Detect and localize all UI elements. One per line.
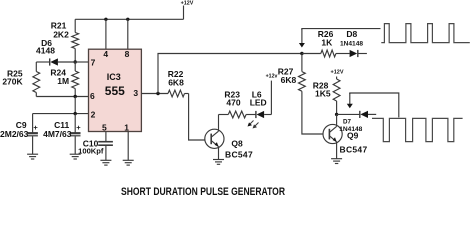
capacitor C9 2M2/63	[27, 114, 38, 155]
ground under pin 1	[123, 160, 134, 165]
node: rail junction at R27	[300, 52, 303, 55]
resistor R21 2K2	[72, 19, 79, 62]
svg-text:D7: D7	[343, 118, 351, 125]
node: pin8 to rail	[126, 18, 129, 21]
capacitor C10 100Kpf	[98, 132, 113, 161]
wire: R25/R24 to pin 6	[36, 96, 88, 98]
transistor Q8 BC547	[205, 115, 224, 160]
svg-text:IC3: IC3	[107, 72, 121, 82]
svg-text:4148: 4148	[36, 45, 55, 55]
diode D8 1N4148	[350, 50, 367, 57]
node: Q9 collector junction	[335, 113, 338, 116]
svg-text:1M: 1M	[57, 76, 69, 86]
svg-text:BC547: BC547	[340, 145, 368, 155]
node: pin4 to rail	[104, 18, 107, 21]
svg-text:555: 555	[105, 84, 125, 98]
svg-text:4: 4	[103, 49, 108, 59]
svg-text:470: 470	[226, 98, 240, 108]
svg-text:2: 2	[91, 109, 96, 119]
waveform pointer (top)	[299, 29, 381, 48]
capacitor C11 4M7/63	[70, 114, 81, 155]
svg-text:8: 8	[125, 49, 130, 59]
svg-text:6K8: 6K8	[168, 77, 184, 87]
ground under C11	[70, 154, 81, 159]
svg-text:+12v: +12v	[266, 73, 278, 79]
transistor Q9 BC547	[323, 114, 342, 158]
node: R21/R24/D6/pin7 junction	[74, 60, 77, 63]
node: output junction	[156, 92, 159, 95]
svg-text:1K: 1K	[321, 38, 333, 48]
ground under Q9	[331, 159, 342, 164]
diode D7 1N4148	[337, 111, 377, 118]
wire: output riser to top rail	[158, 54, 302, 94]
svg-text:LED: LED	[250, 98, 267, 108]
resistor R22 6K8	[168, 90, 189, 97]
ground under C10	[100, 160, 111, 165]
svg-text:BC547: BC547	[225, 150, 253, 160]
svg-text:+12V: +12V	[181, 0, 194, 6]
diode D6 4148	[36, 58, 75, 65]
resistor R25 270K	[33, 62, 40, 97]
resistor R24 1M	[72, 62, 79, 97]
svg-text:6: 6	[90, 91, 95, 101]
wire: pin 3 output	[141, 93, 168, 95]
svg-text:4M7/63: 4M7/63	[43, 129, 72, 139]
svg-text:+: +	[76, 123, 81, 132]
output pulse waveform (top right)	[381, 24, 470, 43]
op-amp/timer IC3 555 body	[89, 49, 142, 131]
LED L6	[256, 81, 272, 119]
resistor R23 470	[219, 111, 256, 118]
resistor R28 1K5	[333, 77, 340, 115]
svg-text:Q8: Q8	[231, 138, 243, 148]
svg-text:2M2/63: 2M2/63	[0, 129, 29, 139]
svg-text:5: 5	[102, 123, 107, 133]
node: R24 bottom on pin6 line	[74, 95, 77, 98]
node: C11 tap on pin2 line	[74, 112, 77, 115]
wire: rail to pin 4	[105, 19, 107, 49]
ground under Q8	[213, 160, 224, 165]
svg-text:2K2: 2K2	[53, 29, 69, 39]
svg-text:270K: 270K	[2, 77, 23, 87]
svg-text:6K8: 6K8	[281, 75, 297, 85]
wire: pin6 tied to pin2	[74, 97, 76, 114]
svg-text:+12V: +12V	[331, 70, 344, 76]
ground under C9	[27, 154, 38, 159]
wire: pin 1 to ground	[127, 132, 129, 161]
LED light arrows	[248, 121, 259, 129]
svg-text:SHORT DURATION PULSE GENERATOR: SHORT DURATION PULSE GENERATOR	[121, 186, 285, 198]
resistor R27 6K8	[299, 54, 323, 135]
wire: rail to pin 8	[127, 19, 129, 49]
resistor R26 1K	[302, 50, 350, 57]
wire: top +12V rail	[75, 18, 183, 20]
svg-text:D8: D8	[346, 29, 357, 39]
svg-text:7: 7	[91, 57, 96, 67]
wire: C9 to pin 2	[33, 113, 89, 115]
svg-text:1K5: 1K5	[315, 89, 331, 99]
inverted pulse waveform (bottom right)	[372, 118, 463, 141]
svg-text:1: 1	[124, 123, 129, 133]
+12V supply symbol (top, partly cropped)	[183, 6, 185, 20]
svg-text:1N4148: 1N4148	[339, 126, 362, 133]
svg-text:100Kpf: 100Kpf	[78, 147, 104, 156]
svg-text:+: +	[33, 123, 38, 132]
svg-text:3: 3	[133, 88, 138, 98]
wire: junction to pin 7	[75, 61, 88, 63]
waveform pointer (bottom)	[347, 93, 399, 117]
wire: R22 down to Q8 base	[189, 94, 206, 141]
svg-text:1N4148: 1N4148	[340, 41, 363, 48]
